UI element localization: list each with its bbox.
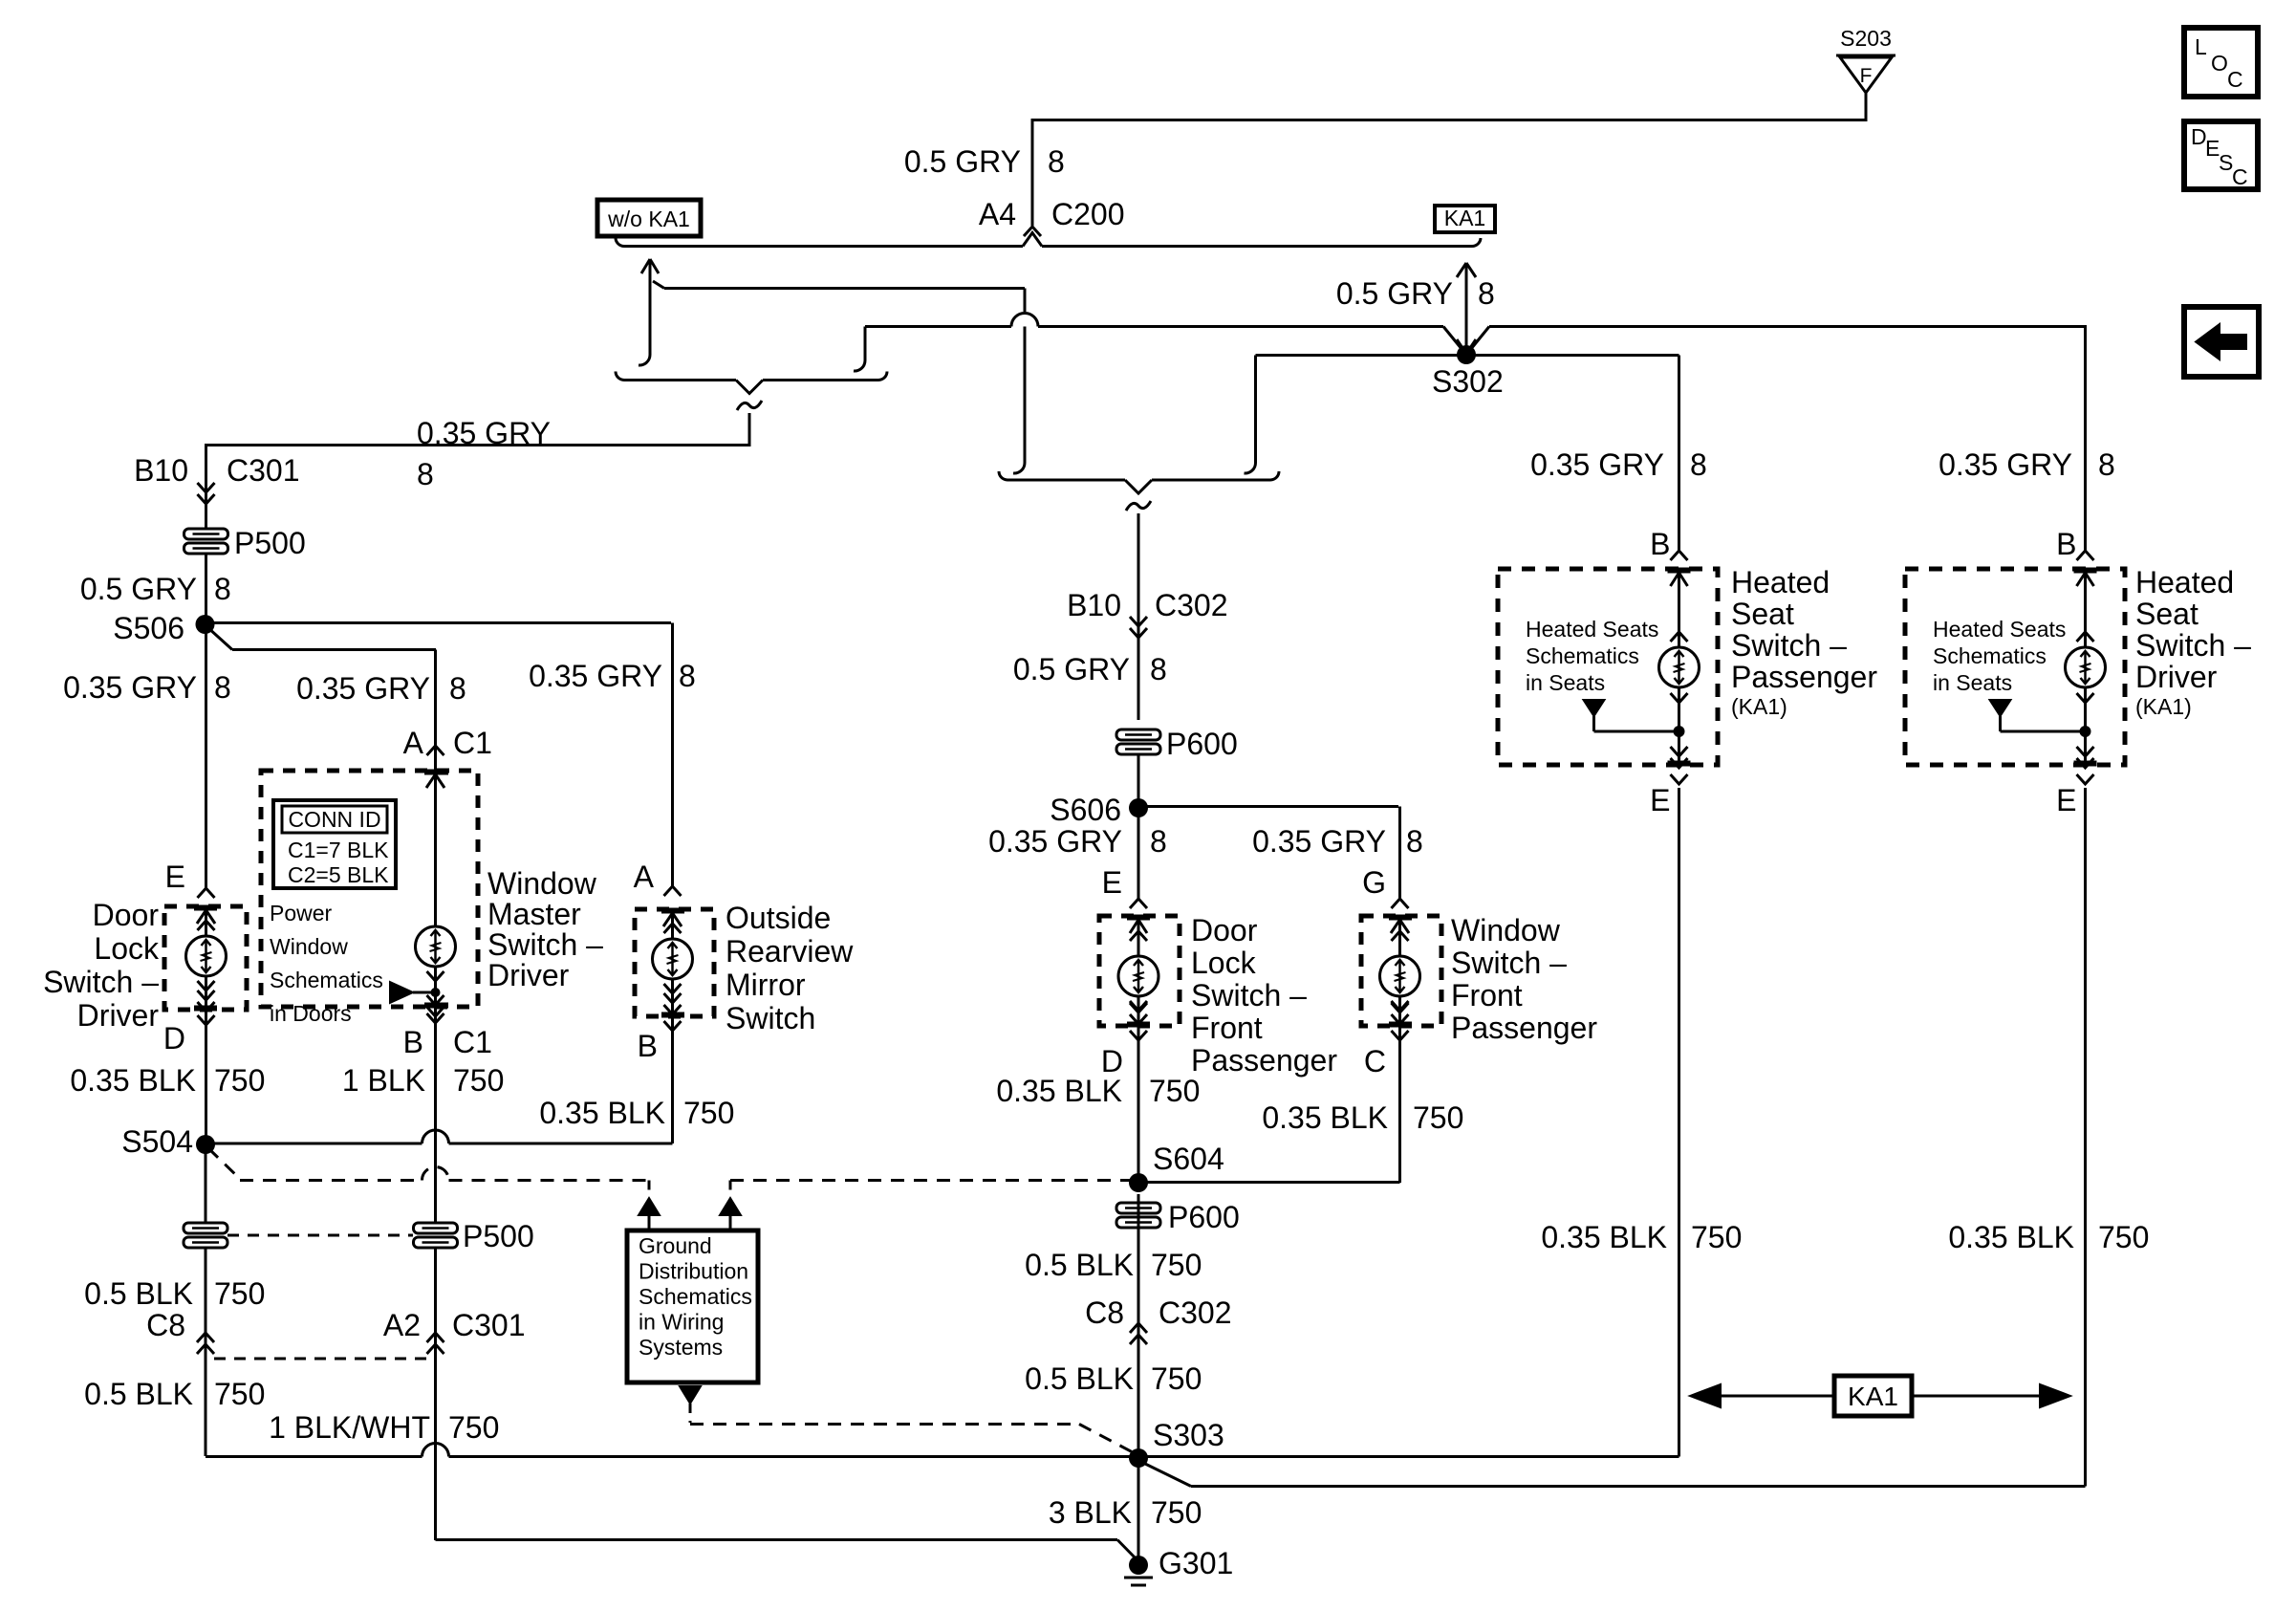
svg-text:8: 8	[1150, 652, 1167, 686]
svg-text:in Seats: in Seats	[1933, 670, 2012, 695]
svg-text:A4: A4	[979, 197, 1016, 231]
svg-text:8: 8	[1048, 144, 1065, 179]
svg-text:Schematics: Schematics	[270, 968, 383, 992]
svg-text:A2: A2	[383, 1308, 421, 1342]
svg-text:750: 750	[1691, 1220, 1742, 1254]
svg-text:E: E	[2056, 783, 2076, 817]
svg-text:Heated Seats: Heated Seats	[1526, 617, 1658, 642]
svg-text:Switch –: Switch –	[1191, 978, 1307, 1012]
svg-text:L: L	[2195, 34, 2207, 59]
svg-text:C301: C301	[452, 1308, 526, 1342]
svg-text:Master: Master	[487, 897, 581, 931]
svg-text:Outside: Outside	[726, 901, 831, 935]
svg-text:8: 8	[1478, 276, 1495, 311]
svg-text:Switch –: Switch –	[487, 927, 603, 962]
svg-text:Power: Power	[270, 901, 333, 925]
svg-text:0.35 GRY: 0.35 GRY	[417, 416, 551, 450]
svg-text:C: C	[2227, 67, 2243, 92]
svg-text:8: 8	[2098, 447, 2115, 482]
svg-text:0.35 GRY: 0.35 GRY	[1252, 824, 1386, 859]
svg-text:Switch: Switch	[726, 1001, 815, 1035]
svg-text:P500: P500	[234, 526, 306, 560]
svg-text:B: B	[638, 1029, 658, 1063]
svg-text:S203: S203	[1840, 26, 1892, 51]
svg-text:Passenger: Passenger	[1451, 1011, 1597, 1045]
svg-text:P500: P500	[463, 1219, 534, 1253]
svg-text:750: 750	[683, 1096, 734, 1130]
svg-text:0.35 BLK: 0.35 BLK	[996, 1074, 1122, 1108]
svg-text:Systems: Systems	[639, 1335, 723, 1360]
svg-text:Switch –: Switch –	[1731, 628, 1847, 663]
svg-text:E: E	[1650, 783, 1670, 817]
svg-text:8: 8	[449, 671, 466, 706]
svg-text:F: F	[1860, 65, 1873, 87]
svg-text:A: A	[403, 726, 424, 760]
svg-text:Passenger: Passenger	[1731, 660, 1877, 694]
svg-text:0.5 BLK: 0.5 BLK	[1025, 1248, 1134, 1282]
svg-text:Driver: Driver	[2135, 660, 2218, 694]
svg-text:S303: S303	[1153, 1418, 1224, 1452]
svg-text:S302: S302	[1432, 364, 1504, 399]
svg-text:B: B	[403, 1025, 423, 1059]
svg-text:0.35 GRY: 0.35 GRY	[63, 670, 197, 705]
svg-text:0.35 GRY: 0.35 GRY	[1939, 447, 2072, 482]
svg-text:Window: Window	[1451, 913, 1561, 947]
svg-text:CONN ID: CONN ID	[288, 807, 380, 832]
svg-text:Switch –: Switch –	[2135, 628, 2251, 663]
svg-text:8: 8	[1690, 447, 1707, 482]
svg-text:(KA1): (KA1)	[1731, 694, 1787, 719]
svg-text:8: 8	[679, 659, 696, 693]
svg-text:C: C	[1364, 1044, 1386, 1078]
svg-text:750: 750	[214, 1063, 265, 1098]
svg-text:750: 750	[214, 1377, 265, 1411]
svg-text:1 BLK: 1 BLK	[342, 1063, 425, 1098]
svg-text:C1: C1	[453, 726, 492, 760]
svg-text:0.35 GRY: 0.35 GRY	[1530, 447, 1664, 482]
svg-text:0.35 BLK: 0.35 BLK	[539, 1096, 665, 1130]
svg-text:Door: Door	[93, 898, 160, 932]
svg-text:Ground: Ground	[639, 1233, 712, 1258]
svg-text:P600: P600	[1166, 727, 1238, 761]
svg-text:Heated: Heated	[2135, 565, 2234, 599]
svg-text:0.35 GRY: 0.35 GRY	[296, 671, 430, 706]
svg-text:750: 750	[453, 1063, 504, 1098]
svg-text:S506: S506	[113, 611, 184, 645]
svg-text:D: D	[163, 1021, 185, 1056]
svg-text:Door: Door	[1191, 913, 1258, 947]
svg-text:0.35 BLK: 0.35 BLK	[1262, 1100, 1388, 1135]
svg-text:Passenger: Passenger	[1191, 1043, 1337, 1078]
svg-text:G: G	[1362, 865, 1386, 900]
svg-text:750: 750	[1149, 1074, 1200, 1108]
svg-text:0.5 GRY: 0.5 GRY	[904, 144, 1021, 179]
svg-text:Seat: Seat	[2135, 597, 2199, 631]
svg-text:Seat: Seat	[1731, 597, 1794, 631]
svg-text:Window: Window	[270, 934, 348, 959]
svg-text:in Wiring: in Wiring	[639, 1310, 724, 1335]
svg-text:C8: C8	[1085, 1295, 1124, 1330]
svg-text:Mirror: Mirror	[726, 968, 806, 1002]
svg-text:0.5 GRY: 0.5 GRY	[80, 572, 197, 606]
svg-text:KA1: KA1	[1444, 206, 1485, 230]
svg-text:0.35 GRY: 0.35 GRY	[529, 659, 662, 693]
svg-text:750: 750	[2098, 1220, 2149, 1254]
svg-text:8: 8	[214, 670, 231, 705]
svg-text:Heated: Heated	[1731, 565, 1830, 599]
svg-text:8: 8	[1150, 824, 1167, 859]
svg-text:KA1: KA1	[1848, 1382, 1898, 1411]
svg-text:B10: B10	[1067, 588, 1121, 622]
svg-text:w/o KA1: w/o KA1	[607, 207, 690, 231]
svg-text:0.5 GRY: 0.5 GRY	[1336, 276, 1453, 311]
svg-text:G301: G301	[1159, 1546, 1233, 1580]
svg-text:8: 8	[214, 572, 231, 606]
svg-text:in Doors: in Doors	[270, 1001, 352, 1026]
svg-text:B: B	[2056, 527, 2076, 561]
svg-text:0.35 BLK: 0.35 BLK	[1541, 1220, 1667, 1254]
svg-text:0.5 BLK: 0.5 BLK	[84, 1276, 193, 1311]
svg-text:0.5 BLK: 0.5 BLK	[84, 1377, 193, 1411]
svg-text:Schematics: Schematics	[639, 1284, 752, 1309]
svg-text:in Seats: in Seats	[1526, 670, 1605, 695]
svg-text:Distribution: Distribution	[639, 1259, 748, 1284]
svg-text:0.5 BLK: 0.5 BLK	[1025, 1361, 1134, 1396]
svg-text:750: 750	[214, 1276, 265, 1311]
svg-text:Lock: Lock	[1191, 946, 1257, 980]
svg-text:750: 750	[1151, 1361, 1202, 1396]
svg-text:Rearview: Rearview	[726, 934, 854, 969]
svg-text:3 BLK: 3 BLK	[1049, 1495, 1132, 1530]
svg-text:S504: S504	[121, 1124, 193, 1159]
svg-text:750: 750	[1151, 1495, 1202, 1530]
svg-text:C302: C302	[1155, 588, 1228, 622]
svg-text:0.35 BLK: 0.35 BLK	[70, 1063, 196, 1098]
svg-text:Switch –: Switch –	[1451, 946, 1567, 980]
svg-text:B10: B10	[134, 453, 188, 488]
svg-text:A: A	[634, 860, 655, 894]
svg-text:C1: C1	[453, 1025, 492, 1059]
svg-text:8: 8	[1406, 824, 1423, 859]
svg-text:0.35 GRY: 0.35 GRY	[988, 824, 1122, 859]
svg-text:Switch –: Switch –	[43, 965, 159, 999]
svg-text:Lock: Lock	[94, 931, 160, 966]
svg-text:Front: Front	[1451, 978, 1523, 1012]
svg-text:C302: C302	[1159, 1295, 1232, 1330]
svg-text:C8: C8	[146, 1308, 185, 1342]
svg-text:Schematics: Schematics	[1933, 643, 2047, 668]
svg-text:E: E	[1102, 865, 1122, 900]
svg-text:E: E	[165, 860, 185, 894]
svg-text:Schematics: Schematics	[1526, 643, 1639, 668]
svg-text:B: B	[1650, 527, 1670, 561]
svg-text:0.35 BLK: 0.35 BLK	[1948, 1220, 2074, 1254]
svg-text:C301: C301	[227, 453, 300, 488]
svg-text:P600: P600	[1168, 1200, 1240, 1234]
svg-text:O: O	[2211, 51, 2228, 76]
svg-text:1 BLK/WHT: 1 BLK/WHT	[269, 1410, 430, 1445]
svg-text:S606: S606	[1050, 793, 1121, 827]
svg-text:(KA1): (KA1)	[2135, 694, 2192, 719]
svg-text:Heated Seats: Heated Seats	[1933, 617, 2066, 642]
svg-text:S604: S604	[1153, 1142, 1224, 1176]
svg-text:750: 750	[448, 1410, 499, 1445]
svg-text:Window: Window	[487, 866, 597, 901]
svg-text:C200: C200	[1051, 197, 1125, 231]
svg-text:750: 750	[1413, 1100, 1463, 1135]
svg-text:C1=7 BLK: C1=7 BLK	[288, 838, 389, 862]
svg-text:Driver: Driver	[77, 998, 160, 1033]
svg-text:C2=5 BLK: C2=5 BLK	[288, 862, 389, 887]
svg-text:Front: Front	[1191, 1011, 1263, 1045]
svg-text:750: 750	[1151, 1248, 1202, 1282]
svg-text:Driver: Driver	[487, 958, 570, 992]
svg-text:C: C	[2232, 164, 2248, 189]
svg-text:0.5 GRY: 0.5 GRY	[1013, 652, 1130, 686]
svg-text:8: 8	[417, 457, 434, 491]
